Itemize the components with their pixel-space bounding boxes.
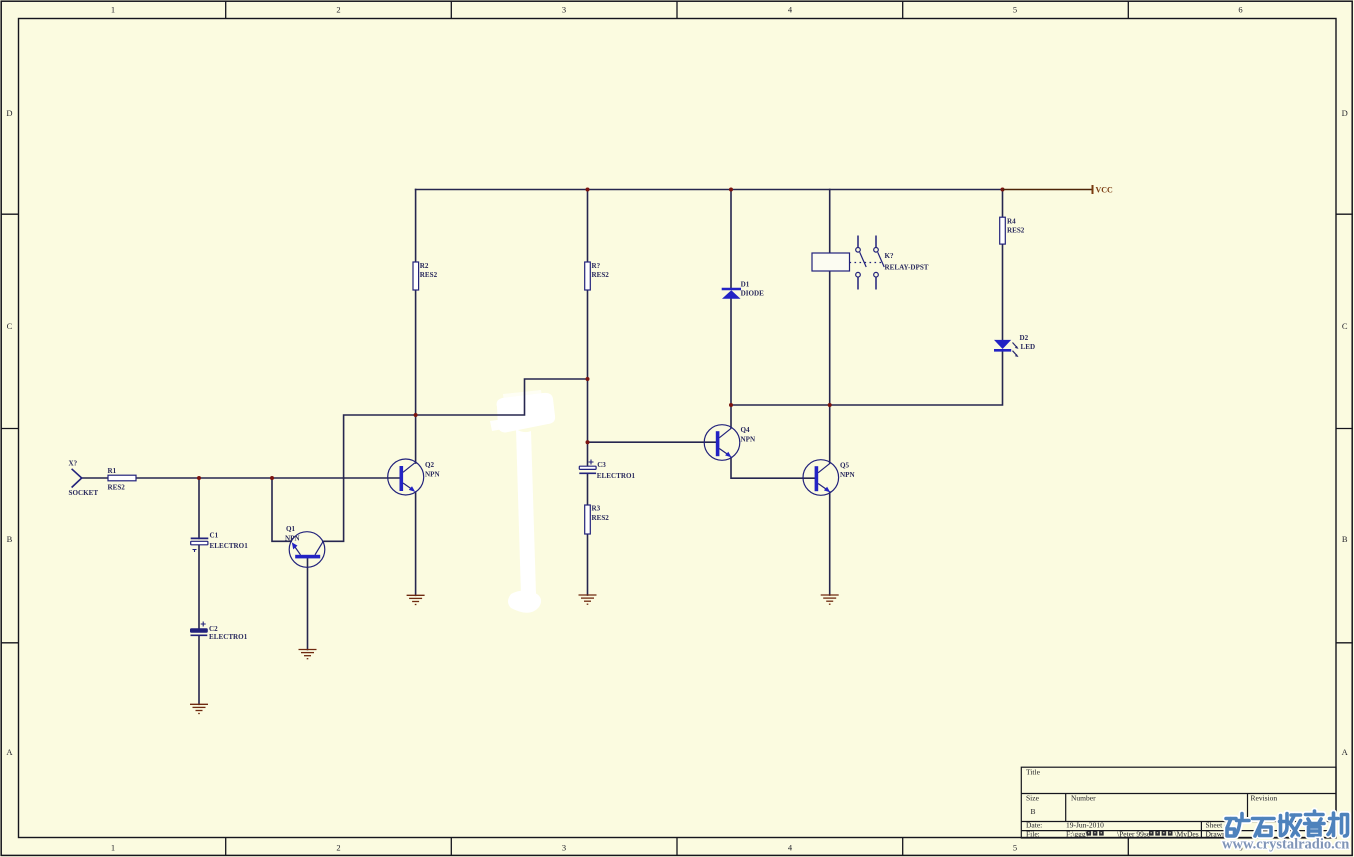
svg-text:Q5: Q5 xyxy=(840,462,850,470)
svg-text:File:: File: xyxy=(1026,829,1040,838)
svg-text:C1: C1 xyxy=(210,531,219,539)
svg-text:NPN: NPN xyxy=(741,436,756,444)
junction Q4 base / C3 node xyxy=(586,440,590,444)
junction input / Q1 emitter node xyxy=(270,476,274,480)
file path CJK glyph blocks xyxy=(1087,829,1199,838)
svg-text:D1: D1 xyxy=(741,281,750,289)
wire R4 top to rail xyxy=(1002,190,1004,218)
white gavel watermark xyxy=(490,390,555,613)
border column labels top xyxy=(111,5,1243,15)
svg-text:5: 5 xyxy=(1013,843,1017,853)
wire C1 branch xyxy=(198,478,200,538)
svg-text:6: 6 xyxy=(1238,5,1242,15)
wire Q2 emitter to ground xyxy=(415,492,417,595)
svg-text:Q1: Q1 xyxy=(286,525,296,533)
wire Q5 emitter to ground xyxy=(829,492,831,595)
ground at C2 xyxy=(190,704,208,713)
junction relay / Q5 collector node xyxy=(828,403,832,407)
svg-text:Q2: Q2 xyxy=(425,461,435,469)
svg-text:RES2: RES2 xyxy=(420,271,438,279)
wire node to C3 top xyxy=(587,379,589,466)
resistor R4 xyxy=(1000,217,1025,244)
LED D2 xyxy=(994,334,1035,357)
ground at Q2 xyxy=(407,595,425,604)
svg-text:RELAY-DPST: RELAY-DPST xyxy=(885,264,929,272)
border row labels right xyxy=(1342,108,1349,757)
wire cross-coupling to Q1 collector xyxy=(323,379,588,541)
ground at Q5 xyxy=(821,595,839,604)
svg-text:Date:: Date: xyxy=(1026,821,1042,830)
svg-text:NPN: NPN xyxy=(840,471,855,479)
transistor Q1 xyxy=(285,525,325,567)
resistor R3 xyxy=(585,505,610,535)
wire Q5 collector vertical xyxy=(829,405,831,463)
title block texts xyxy=(1026,768,1277,839)
svg-text:RES2: RES2 xyxy=(108,484,126,492)
svg-text:\MyDes: \MyDes xyxy=(1175,829,1199,838)
transistor Q2 xyxy=(388,459,441,495)
wire Q4 emitter to Q5 base xyxy=(731,457,815,478)
junction VCC rail / R4 xyxy=(1001,188,1005,192)
junction D1 / Q4 collector node xyxy=(729,403,733,407)
svg-text:Revision: Revision xyxy=(1251,794,1278,803)
svg-text:RES2: RES2 xyxy=(592,514,610,522)
wire R7 branch top xyxy=(587,190,589,263)
wire R1 to Q2 base xyxy=(136,477,400,479)
wire C2 to ground xyxy=(198,635,200,704)
svg-text:C: C xyxy=(1342,321,1348,331)
svg-text:R3: R3 xyxy=(592,505,601,513)
svg-text:A: A xyxy=(6,747,13,757)
svg-text:R?: R? xyxy=(592,262,601,270)
svg-text:B: B xyxy=(1031,807,1036,816)
wire R2 branch top xyxy=(415,190,417,263)
border column labels bottom xyxy=(111,843,1243,853)
svg-text:Number: Number xyxy=(1071,794,1096,803)
wire C3 bottom to R3 xyxy=(587,473,589,505)
svg-text:RES2: RES2 xyxy=(1007,227,1025,235)
svg-text:B: B xyxy=(7,534,13,544)
svg-text:\Peter 99se: \Peter 99se xyxy=(1117,829,1151,838)
resistor R1 xyxy=(108,467,137,492)
wire D1 branch top xyxy=(730,190,732,289)
relay K? xyxy=(812,236,929,290)
junction VCC rail / R7 xyxy=(586,188,590,192)
svg-text:www.crystalradio.cn: www.crystalradio.cn xyxy=(1222,837,1349,853)
wire C1 to C2 xyxy=(198,545,200,629)
capacitor C3 xyxy=(579,460,635,480)
junction VCC rail / D1 xyxy=(729,188,733,192)
border row labels left xyxy=(6,108,13,757)
border row ticks left xyxy=(1,214,19,643)
wire R3 bottom to ground xyxy=(587,534,589,595)
svg-text:NPN: NPN xyxy=(285,535,300,543)
svg-text:Q4: Q4 xyxy=(741,426,751,434)
wire Q2 collector vertical xyxy=(415,415,417,463)
wire relay branch xyxy=(829,190,831,254)
svg-text:A: A xyxy=(1342,747,1349,757)
ground at Q1 xyxy=(299,650,317,659)
svg-text:F:\ggg\: F:\ggg\ xyxy=(1066,829,1089,838)
wire VCC rail xyxy=(416,189,1003,191)
border column ticks bottom xyxy=(226,838,1129,856)
svg-text:C: C xyxy=(7,321,13,331)
svg-text:LED: LED xyxy=(1021,343,1036,351)
title block frame xyxy=(1021,767,1336,838)
wire socket to R1 xyxy=(82,477,108,479)
svg-text:ELECTRO1: ELECTRO1 xyxy=(210,542,249,550)
wire relay coil bottom to node xyxy=(829,271,831,405)
svg-text:1: 1 xyxy=(111,5,115,15)
diode D1 xyxy=(722,281,764,299)
svg-text:3: 3 xyxy=(562,843,566,853)
svg-text:5: 5 xyxy=(1013,5,1017,15)
svg-text:1: 1 xyxy=(111,843,115,853)
svg-text:R1: R1 xyxy=(108,467,117,475)
svg-text:19-Jun-2010: 19-Jun-2010 xyxy=(1066,821,1104,830)
wire Q1 emitter link xyxy=(272,478,291,541)
resistor R7 xyxy=(585,262,610,290)
svg-text:K?: K? xyxy=(885,252,895,260)
junction R7 / coupling node xyxy=(586,377,590,381)
capacitor C2 xyxy=(191,622,248,641)
svg-text:Size: Size xyxy=(1026,794,1040,803)
wire Q1 base to ground xyxy=(307,558,309,650)
svg-text:X?: X? xyxy=(69,460,78,468)
svg-text:D: D xyxy=(6,108,12,118)
svg-text:C2: C2 xyxy=(209,625,218,633)
relay contact pole 2 xyxy=(875,236,877,248)
svg-text:B: B xyxy=(1342,534,1348,544)
relay contact pole 1 xyxy=(857,236,859,248)
watermark text 矿石收音机 xyxy=(1226,811,1348,836)
svg-text:Title: Title xyxy=(1026,768,1041,777)
svg-text:ELECTRO1: ELECTRO1 xyxy=(209,633,248,641)
socket X? xyxy=(69,460,99,498)
capacitor C1 xyxy=(191,531,248,552)
svg-text:DIODE: DIODE xyxy=(741,289,765,297)
transistor Q5 xyxy=(803,460,855,496)
svg-text:R2: R2 xyxy=(420,262,429,270)
svg-text:2: 2 xyxy=(336,843,340,853)
ground at R3 xyxy=(579,595,597,604)
junction R2 / Q2 collector node xyxy=(414,413,418,417)
transistor Q4 xyxy=(704,425,756,461)
wire Q4 collector vertical xyxy=(730,405,732,428)
resistor R2 xyxy=(413,262,438,290)
wire LED top to R4 xyxy=(1002,244,1004,340)
svg-text:ELECTRO1: ELECTRO1 xyxy=(597,472,636,480)
border column ticks top xyxy=(226,1,1129,19)
svg-text:VCC: VCC xyxy=(1096,186,1114,195)
wire relay node to LED bottom xyxy=(731,351,1003,405)
svg-text:2: 2 xyxy=(336,5,340,15)
svg-text:C3: C3 xyxy=(597,461,606,469)
svg-text:D2: D2 xyxy=(1020,334,1029,342)
junction input / C1 node xyxy=(197,476,201,480)
wire Q4 base xyxy=(588,441,716,443)
svg-text:R4: R4 xyxy=(1007,218,1016,226)
svg-text:RES2: RES2 xyxy=(592,271,610,279)
border row ticks right xyxy=(1336,214,1353,643)
svg-text:D: D xyxy=(1342,108,1348,118)
svg-text:3: 3 xyxy=(562,5,566,15)
wire R7 bottom to node xyxy=(587,290,589,379)
power port VCC xyxy=(1003,185,1114,195)
svg-text:NPN: NPN xyxy=(425,471,440,479)
svg-text:SOCKET: SOCKET xyxy=(69,489,99,497)
wire D1 bottom to Q4 collector node xyxy=(730,299,732,406)
wire R2 bottom to node xyxy=(415,290,417,415)
